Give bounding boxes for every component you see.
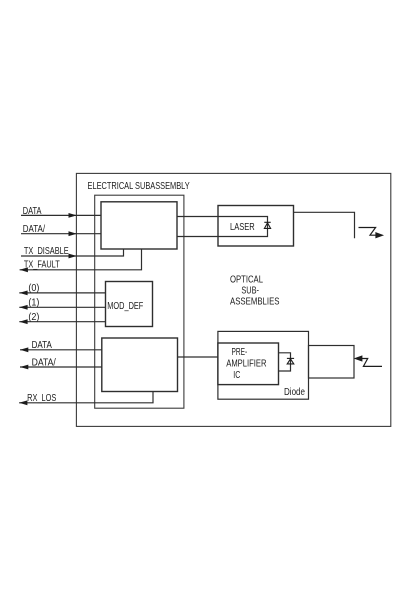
arrow out (1) <box>19 305 27 310</box>
outer enclosure box <box>76 173 390 426</box>
laser diode <box>264 222 270 228</box>
wire laser output fiber elbow <box>294 212 355 238</box>
svg-text:IC: IC <box>233 369 240 381</box>
arrow out TX_FAULT <box>20 267 28 272</box>
MOD_DEF block <box>106 282 153 327</box>
PRE-AMPLIFIER IC box <box>218 343 279 385</box>
photodiode <box>287 358 294 364</box>
RX optical input squiggle arrow <box>355 356 382 366</box>
svg-text:(0): (0) <box>28 282 39 294</box>
wire DATA (tx) <box>21 214 101 216</box>
svg-text:DATA: DATA <box>32 339 52 351</box>
arrow out RX_LOS <box>19 400 27 405</box>
arrow into box TX_DISABLE <box>69 254 77 259</box>
wire DATA/ (rx) <box>20 366 102 368</box>
arrow out DATA/ (rx) <box>20 365 28 370</box>
electrical subassembly inner box <box>95 195 184 408</box>
svg-text:ASSEMBLIES: ASSEMBLIES <box>230 295 280 307</box>
arrow out (2) <box>19 319 27 324</box>
wire (2) <box>19 321 105 323</box>
RX IC block <box>102 338 178 392</box>
wire RX block to pre-amplifier <box>178 356 218 358</box>
svg-text:LASER: LASER <box>230 221 255 233</box>
wire DATA (rx) <box>20 349 102 351</box>
svg-text:AMPLIFIER: AMPLIFIER <box>226 358 267 370</box>
svg-text:PRE-: PRE- <box>232 346 248 358</box>
svg-text:(1): (1) <box>28 296 39 308</box>
arrow into box DATA (tx) <box>69 213 77 218</box>
TX IC block <box>101 202 177 249</box>
svg-text:TX_FAULT: TX_FAULT <box>24 258 60 270</box>
svg-text:Diode: Diode <box>284 386 305 398</box>
wire photodiode loop <box>279 353 291 371</box>
wire TX_DISABLE <box>21 249 124 256</box>
svg-text:TX_DISABLE: TX_DISABLE <box>24 245 69 257</box>
svg-text:ELECTRICAL SUBASSEMBLY: ELECTRICAL SUBASSEMBLY <box>88 180 190 192</box>
svg-text:(2): (2) <box>28 311 39 323</box>
pre-amplifier assembly box <box>218 331 309 399</box>
label OPTICAL SUB-ASSEMBLIES <box>230 274 280 308</box>
wire RX_LOS <box>19 392 153 403</box>
wire (1) <box>19 306 105 308</box>
LASER box <box>218 206 294 247</box>
arrow out DATA (rx) <box>20 347 28 352</box>
arrow out (0) <box>19 291 27 296</box>
svg-text:RX_LOS: RX_LOS <box>27 392 56 404</box>
wire TX block to laser diode (upper) <box>177 217 268 237</box>
TX optical output squiggle arrow <box>359 228 383 238</box>
wire (0) <box>19 292 105 294</box>
label PRE-AMPLIFIER IC <box>226 346 267 381</box>
arrow into box DATA/ (tx) <box>69 231 77 236</box>
wire TX_FAULT <box>20 249 142 270</box>
wire DATA/ (tx) <box>21 233 101 235</box>
fiber connector box <box>309 346 355 379</box>
svg-text:MOD_DEF: MOD_DEF <box>107 300 143 312</box>
